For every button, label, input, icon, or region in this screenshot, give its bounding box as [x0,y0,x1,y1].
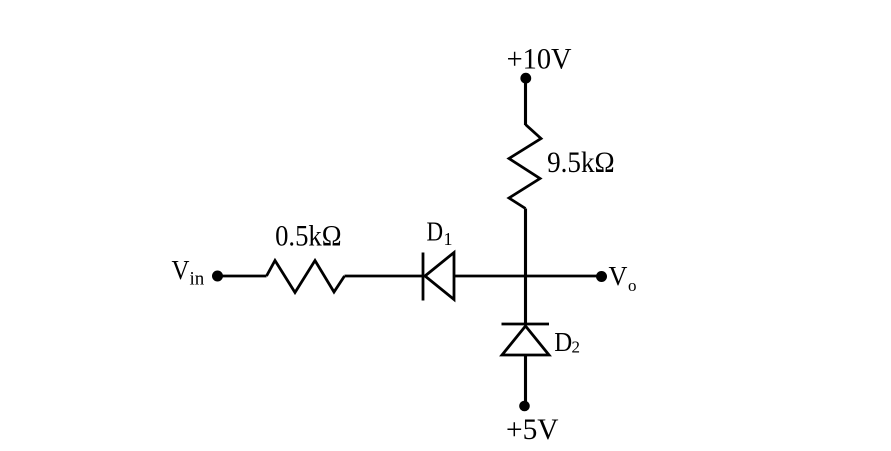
wire +10V dot to resistor 9.5k [524,78,527,125]
diode D2 (cathode bar + up-pointing triangle) [502,324,550,355]
svg-text:0.5kΩ: 0.5kΩ [275,220,341,253]
wire junction node to diode D2 [524,276,527,324]
label Vin [172,255,205,289]
value label 9.5kΩ [547,147,615,180]
svg-text:D: D [554,327,572,357]
label +5V [506,414,559,446]
wire resistor 0.5k to diode D1 [345,275,424,278]
svg-text:D: D [427,218,444,247]
svg-text:9.5kΩ: 9.5kΩ [547,147,615,180]
svg-text:+5V: +5V [506,414,559,446]
wire diode D2 to +5V dot [524,355,527,405]
svg-text:+10V: +10V [507,43,572,76]
svg-text:2: 2 [572,338,581,357]
svg-text:V: V [172,255,190,285]
value label 0.5kΩ [275,220,341,253]
svg-text:in: in [190,269,205,290]
wire diode D1 to Vo [454,275,601,278]
label D1 [427,218,453,249]
resistor 9.5k (vertical zigzag) [509,125,541,209]
terminal dot Vo [596,271,607,282]
svg-text:o: o [628,276,637,295]
svg-text:V: V [609,261,628,291]
label Vo [609,261,637,295]
wire resistor 9.5k to junction node [524,209,527,277]
label D2 [554,327,580,357]
resistor 0.5k (horizontal zigzag) [267,261,345,293]
label +10V [507,43,572,76]
terminal dot +5V [519,401,530,412]
diode D1 (cathode bar + left-pointing triangle) [423,253,454,301]
svg-text:1: 1 [444,229,453,249]
terminal dot Vin [212,271,223,282]
terminal dot +10V [520,73,531,84]
wire Vin dot to resistor 0.5k [218,275,267,278]
